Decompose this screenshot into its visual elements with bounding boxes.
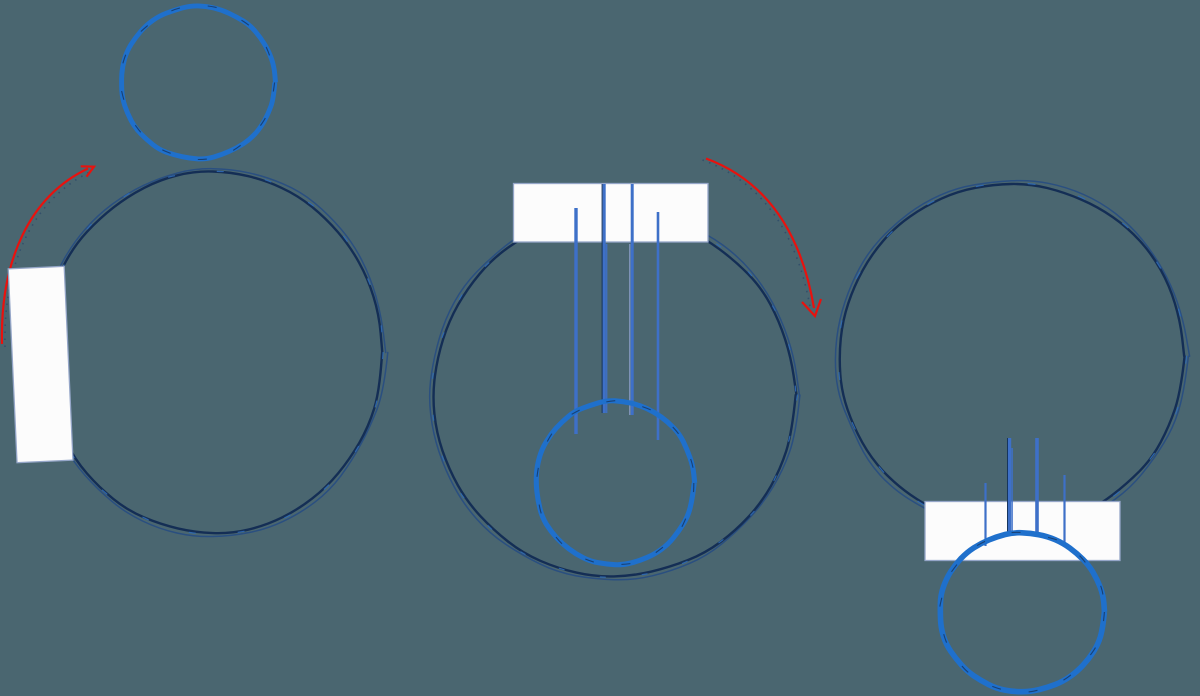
white rectangle (left group, slightly rotated paddle): [8, 266, 73, 462]
vertical blue line 3 (right group): [1035, 438, 1039, 532]
vertical blue line 2 with dark companion (right group): [1008, 438, 1013, 533]
small bright blue circle (middle group): [536, 400, 694, 565]
large navy circle (right group, sketched double stroke): [835, 181, 1189, 532]
vertical blue line 1 (middle group): [574, 208, 577, 434]
vertical blue line 4 (middle group): [657, 212, 660, 440]
white rectangle (right group, on bottom edge of circle): [925, 502, 1120, 561]
vertical blue line 2 with dark companion (middle group): [602, 184, 606, 413]
large navy circle (middle group, sketched double stroke): [430, 210, 800, 580]
white rectangle (middle group, on top edge of circle): [514, 184, 709, 243]
small bright blue circle (right group): [939, 532, 1104, 692]
vertical blue line 3 with light companion (middle group): [630, 184, 632, 415]
red curved arrow (middle group, pointing down-right): [703, 159, 822, 317]
vertical blue line 1 (right group): [984, 483, 986, 546]
red curved arrow (left group, pointing up-right): [2, 166, 94, 347]
vertical blue line 4 (right group): [1063, 475, 1065, 546]
large navy circle (left group, sketched double stroke): [39, 169, 388, 537]
small bright blue circle (left group): [120, 5, 275, 159]
